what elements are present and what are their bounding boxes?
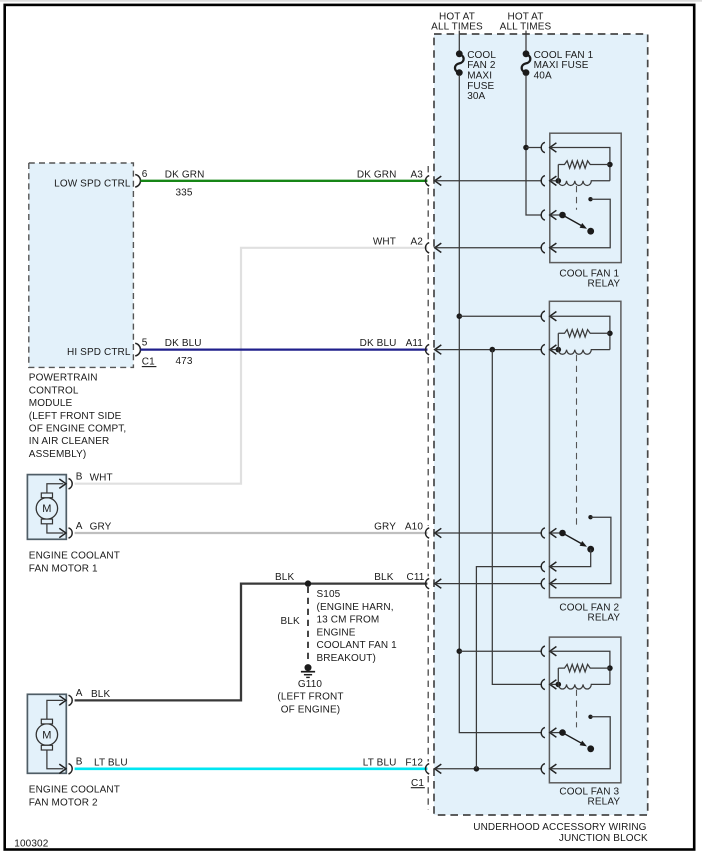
svg-text:A11: A11 [406, 338, 424, 349]
relay K3 terminal 1 connector [541, 646, 545, 656]
node: DK BLU branch junction [490, 347, 496, 353]
fuse F1: COOL FAN 1 MAXI FUSE 40A [525, 31, 527, 51]
node: 30A bus to relay K3 terminal 1 [457, 648, 463, 654]
relay K1 coil feed wire (terminal 1 to coil top) [550, 148, 610, 181]
svg-text:RELAY: RELAY [588, 613, 621, 624]
svg-text:HOT AT: HOT AT [439, 11, 475, 22]
svg-text:C1: C1 [411, 778, 424, 789]
svg-text:A2: A2 [411, 236, 424, 247]
svg-text:CONTROL: CONTROL [29, 385, 79, 396]
svg-text:(LEFT FRONT: (LEFT FRONT [277, 692, 343, 703]
svg-text:RELAY: RELAY [588, 279, 621, 290]
relay K3 switch pivot [559, 729, 566, 736]
wire C11 to relay K2 terminal 5 [435, 583, 541, 585]
relay K2 armature linkage (dashed) [576, 355, 578, 528]
svg-text:13 CM FROM: 13 CM FROM [317, 615, 380, 626]
svg-text:DK BLU: DK BLU [165, 338, 202, 349]
wire LT BLU (fan motor 2 feed) [75, 767, 428, 770]
relay K3 switch common wire [550, 732, 563, 734]
relay K3 terminal 2 wire to coil [550, 683, 559, 685]
svg-text:BREAKOUT): BREAKOUT) [317, 653, 376, 664]
page top gray strip [0, 0, 702, 2]
svg-text:LT BLU: LT BLU [363, 757, 397, 768]
relay K1 coil resistor junction node [607, 162, 613, 168]
svg-text:B: B [76, 757, 83, 768]
svg-text:UNDERHOOD ACCESSORY WIRING: UNDERHOOD ACCESSORY WIRING [473, 822, 646, 833]
svg-text:ENGINE COOLANT: ENGINE COOLANT [29, 785, 120, 796]
relay K2 coil feed wire (terminal 1 to coil top) [550, 316, 610, 349]
motor M2 pin B wire [47, 750, 63, 769]
motor M1 symbol [36, 498, 57, 519]
relay K2 coil left junction node [556, 347, 562, 353]
relay K3 terminal 3 connector [541, 727, 545, 737]
PCM pin 6 connector [135, 175, 140, 188]
wire relay K2 terminal 4 down to LT BLU node [476, 567, 540, 769]
svg-text:A3: A3 [411, 169, 424, 180]
wire A3 to relay K1 terminal 2 [435, 180, 541, 182]
svg-text:MODULE: MODULE [29, 398, 73, 409]
svg-text:5: 5 [142, 338, 148, 349]
relay K2 switch contact (arm side) [587, 546, 594, 553]
PCM pin 5 connector [135, 343, 140, 356]
engine coolant fan motor 2 box [27, 694, 66, 773]
svg-text:A10: A10 [405, 522, 423, 533]
relay K1 coil winding [558, 181, 610, 186]
relay K2 switch pivot [559, 530, 566, 537]
relay K3 coil winding [558, 684, 610, 689]
relay K1 switch contact (arm side) [587, 228, 594, 235]
relay K1 switch arm [563, 215, 584, 227]
svg-text:OF ENGINE COMPT,: OF ENGINE COMPT, [29, 424, 126, 435]
relay K1 COOL FAN 1 RELAY box [550, 133, 621, 262]
wire DK GRN 335 (low speed control) [140, 180, 427, 182]
relay K2 arm contact wire to terminal 4 [550, 549, 591, 566]
relay K2 fixed contact wire to terminal 5 [550, 517, 611, 583]
relay K2 coil winding [558, 350, 610, 355]
svg-text:GRY: GRY [90, 522, 112, 533]
svg-text:IN AIR CLEANER: IN AIR CLEANER [29, 436, 110, 447]
svg-text:ALL TIMES: ALL TIMES [431, 22, 483, 33]
svg-text:HI SPD CTRL: HI SPD CTRL [67, 347, 131, 358]
relay K3 fixed contact output wire to terminal 4 [550, 717, 610, 769]
svg-text:LT BLU: LT BLU [94, 757, 128, 768]
wire A2 to relay K1 terminal 4 [435, 247, 541, 249]
relay K3 COOL FAN 3 RELAY box [549, 637, 621, 783]
fuse F2: COOL FAN 2 MAXI FUSE 30A [458, 31, 460, 51]
svg-text:DK GRN: DK GRN [357, 169, 397, 180]
relay K3 switch fixed contact [588, 715, 592, 719]
svg-text:335: 335 [176, 187, 193, 198]
relay K1 suppression resistor [557, 165, 559, 181]
powertrain control module (dashed box) [29, 163, 134, 367]
relay K2 switch fixed contact [588, 515, 592, 519]
svg-text:ASSEMBLY): ASSEMBLY) [29, 449, 87, 460]
node: 30A bus to relay K2 terminal 1 [457, 313, 463, 319]
svg-text:LOW SPD CTRL: LOW SPD CTRL [54, 178, 131, 189]
relay K1 switch fixed contact [588, 197, 592, 201]
relay K3 suppression resistor [557, 668, 559, 684]
svg-text:RELAY: RELAY [588, 797, 621, 808]
svg-text:A: A [76, 521, 83, 532]
svg-text:BLK: BLK [275, 572, 294, 583]
svg-text:GRY: GRY [374, 522, 396, 533]
underhood accessory wiring junction block (dashed box) [434, 34, 648, 815]
relay K1 terminal 4 connector [541, 243, 545, 253]
svg-text:OF ENGINE): OF ENGINE) [281, 705, 341, 716]
relay K3 terminal 2 connector [541, 679, 545, 689]
relay K3 armature linkage (dashed) [576, 690, 578, 728]
relay K3 switch arm [563, 733, 584, 745]
svg-text:473: 473 [176, 356, 193, 367]
svg-text:DK BLU: DK BLU [360, 338, 397, 349]
relay K3 coil feed wire (terminal 1 to coil top) [550, 651, 610, 684]
wire A10 to relay K2 terminal 3 [435, 532, 541, 534]
svg-text:DK GRN: DK GRN [165, 169, 205, 180]
relay K1 terminal 3 connector [541, 210, 545, 220]
svg-text:G110: G110 [298, 679, 323, 690]
wire WHT (from relay 1 to fan motor 1) [75, 248, 428, 484]
svg-text:FAN MOTOR 2: FAN MOTOR 2 [29, 797, 98, 808]
relay K2 coil resistor junction node [607, 331, 613, 337]
relay K3 switch contact (arm side) [587, 745, 594, 752]
wire fuse 40A down to relay K1 terminal 3 [526, 75, 541, 215]
svg-text:B: B [76, 472, 83, 483]
svg-text:HOT AT: HOT AT [508, 11, 544, 22]
relay K3 coil left junction node [556, 682, 562, 688]
svg-text:6: 6 [142, 169, 148, 180]
relay K1 fixed contact output wire to terminal 4 [550, 199, 610, 248]
relay K1 switch pivot [559, 212, 566, 219]
svg-text:ENGINE COOLANT: ENGINE COOLANT [29, 551, 120, 562]
svg-text:BLK: BLK [374, 572, 393, 583]
motor M2 symbol [36, 724, 57, 745]
relay K2 terminal 2 wire to coil [550, 349, 559, 351]
svg-text:FAN MOTOR 1: FAN MOTOR 1 [29, 563, 98, 574]
relay K3 terminal 4 connector [541, 764, 545, 774]
relay K1 terminal 1 connector [541, 142, 545, 152]
svg-text:(ENGINE HARN,: (ENGINE HARN, [317, 602, 394, 613]
wire F12 to relay K3 terminal 4 [435, 768, 541, 770]
node: 40A to relay K1 terminal 1 [523, 145, 529, 151]
wire DK BLU 473 (high speed control) [140, 348, 427, 350]
relay K2 switch arm [563, 533, 584, 545]
motor M1 pin B wire [47, 484, 63, 493]
svg-text:POWERTRAIN: POWERTRAIN [29, 373, 98, 384]
relay K1 switch common wire [550, 214, 563, 216]
junction block connector C1 face (dashed) [427, 166, 429, 174]
svg-text:40A: 40A [534, 71, 552, 82]
relay K2 terminal 1 connector [541, 311, 545, 321]
wire fuse 30A bus down to relay K3 terminal 3 [459, 75, 540, 733]
motor M2 pin A wire [47, 700, 63, 719]
svg-text:JUNCTION BLOCK: JUNCTION BLOCK [559, 833, 648, 844]
ground G110 [305, 664, 312, 671]
relay K2 terminal 3 connector [541, 528, 545, 538]
relay K2 COOL FAN 2 RELAY box [549, 301, 621, 597]
motor M1 pin A wire [47, 524, 63, 533]
svg-text:100302: 100302 [14, 839, 48, 850]
svg-text:30A: 30A [467, 91, 485, 102]
wire GRY (fan motor 1 feed) [75, 532, 428, 534]
splice S105 [305, 580, 311, 586]
svg-text:M: M [42, 730, 51, 742]
engine coolant fan motor 1 box [27, 475, 66, 540]
relay K2 terminal 5 connector [541, 578, 545, 588]
relay K1 armature linkage (dashed) [576, 186, 578, 210]
svg-text:COOLANT FAN 1: COOLANT FAN 1 [317, 640, 398, 651]
svg-text:WHT: WHT [90, 472, 113, 483]
relay K2 suppression resistor [557, 333, 559, 349]
svg-text:F12: F12 [405, 757, 423, 768]
relay K2 terminal 2 connector [541, 344, 545, 354]
svg-text:M: M [42, 503, 51, 515]
node: LT BLU junction [474, 766, 480, 772]
relay K3 coil resistor junction node [607, 665, 613, 671]
svg-text:BLK: BLK [91, 689, 110, 700]
svg-text:C11: C11 [407, 572, 425, 583]
relay K2 terminal 4 connector [541, 561, 545, 571]
relay K1 coil left junction node [556, 178, 562, 184]
wire BLK (ground path from fan motor 2) [75, 584, 428, 701]
wire BLK splice to ground (dashed) [307, 587, 309, 661]
wire DK BLU branch down to relay K3 terminal 2 [492, 350, 540, 685]
relay K1 terminal 2 connector [541, 176, 545, 186]
wire A11 to relay K2 terminal 2 [435, 349, 541, 351]
relay K1 terminal 2 wire to coil [550, 180, 559, 182]
svg-text:WHT: WHT [373, 236, 396, 247]
svg-text:(LEFT FRONT SIDE: (LEFT FRONT SIDE [29, 411, 122, 422]
svg-text:A: A [76, 688, 83, 699]
svg-text:ENGINE: ENGINE [317, 627, 356, 638]
svg-text:S105: S105 [317, 589, 341, 600]
svg-text:BLK: BLK [281, 616, 300, 627]
relay K2 switch common wire [550, 532, 563, 534]
